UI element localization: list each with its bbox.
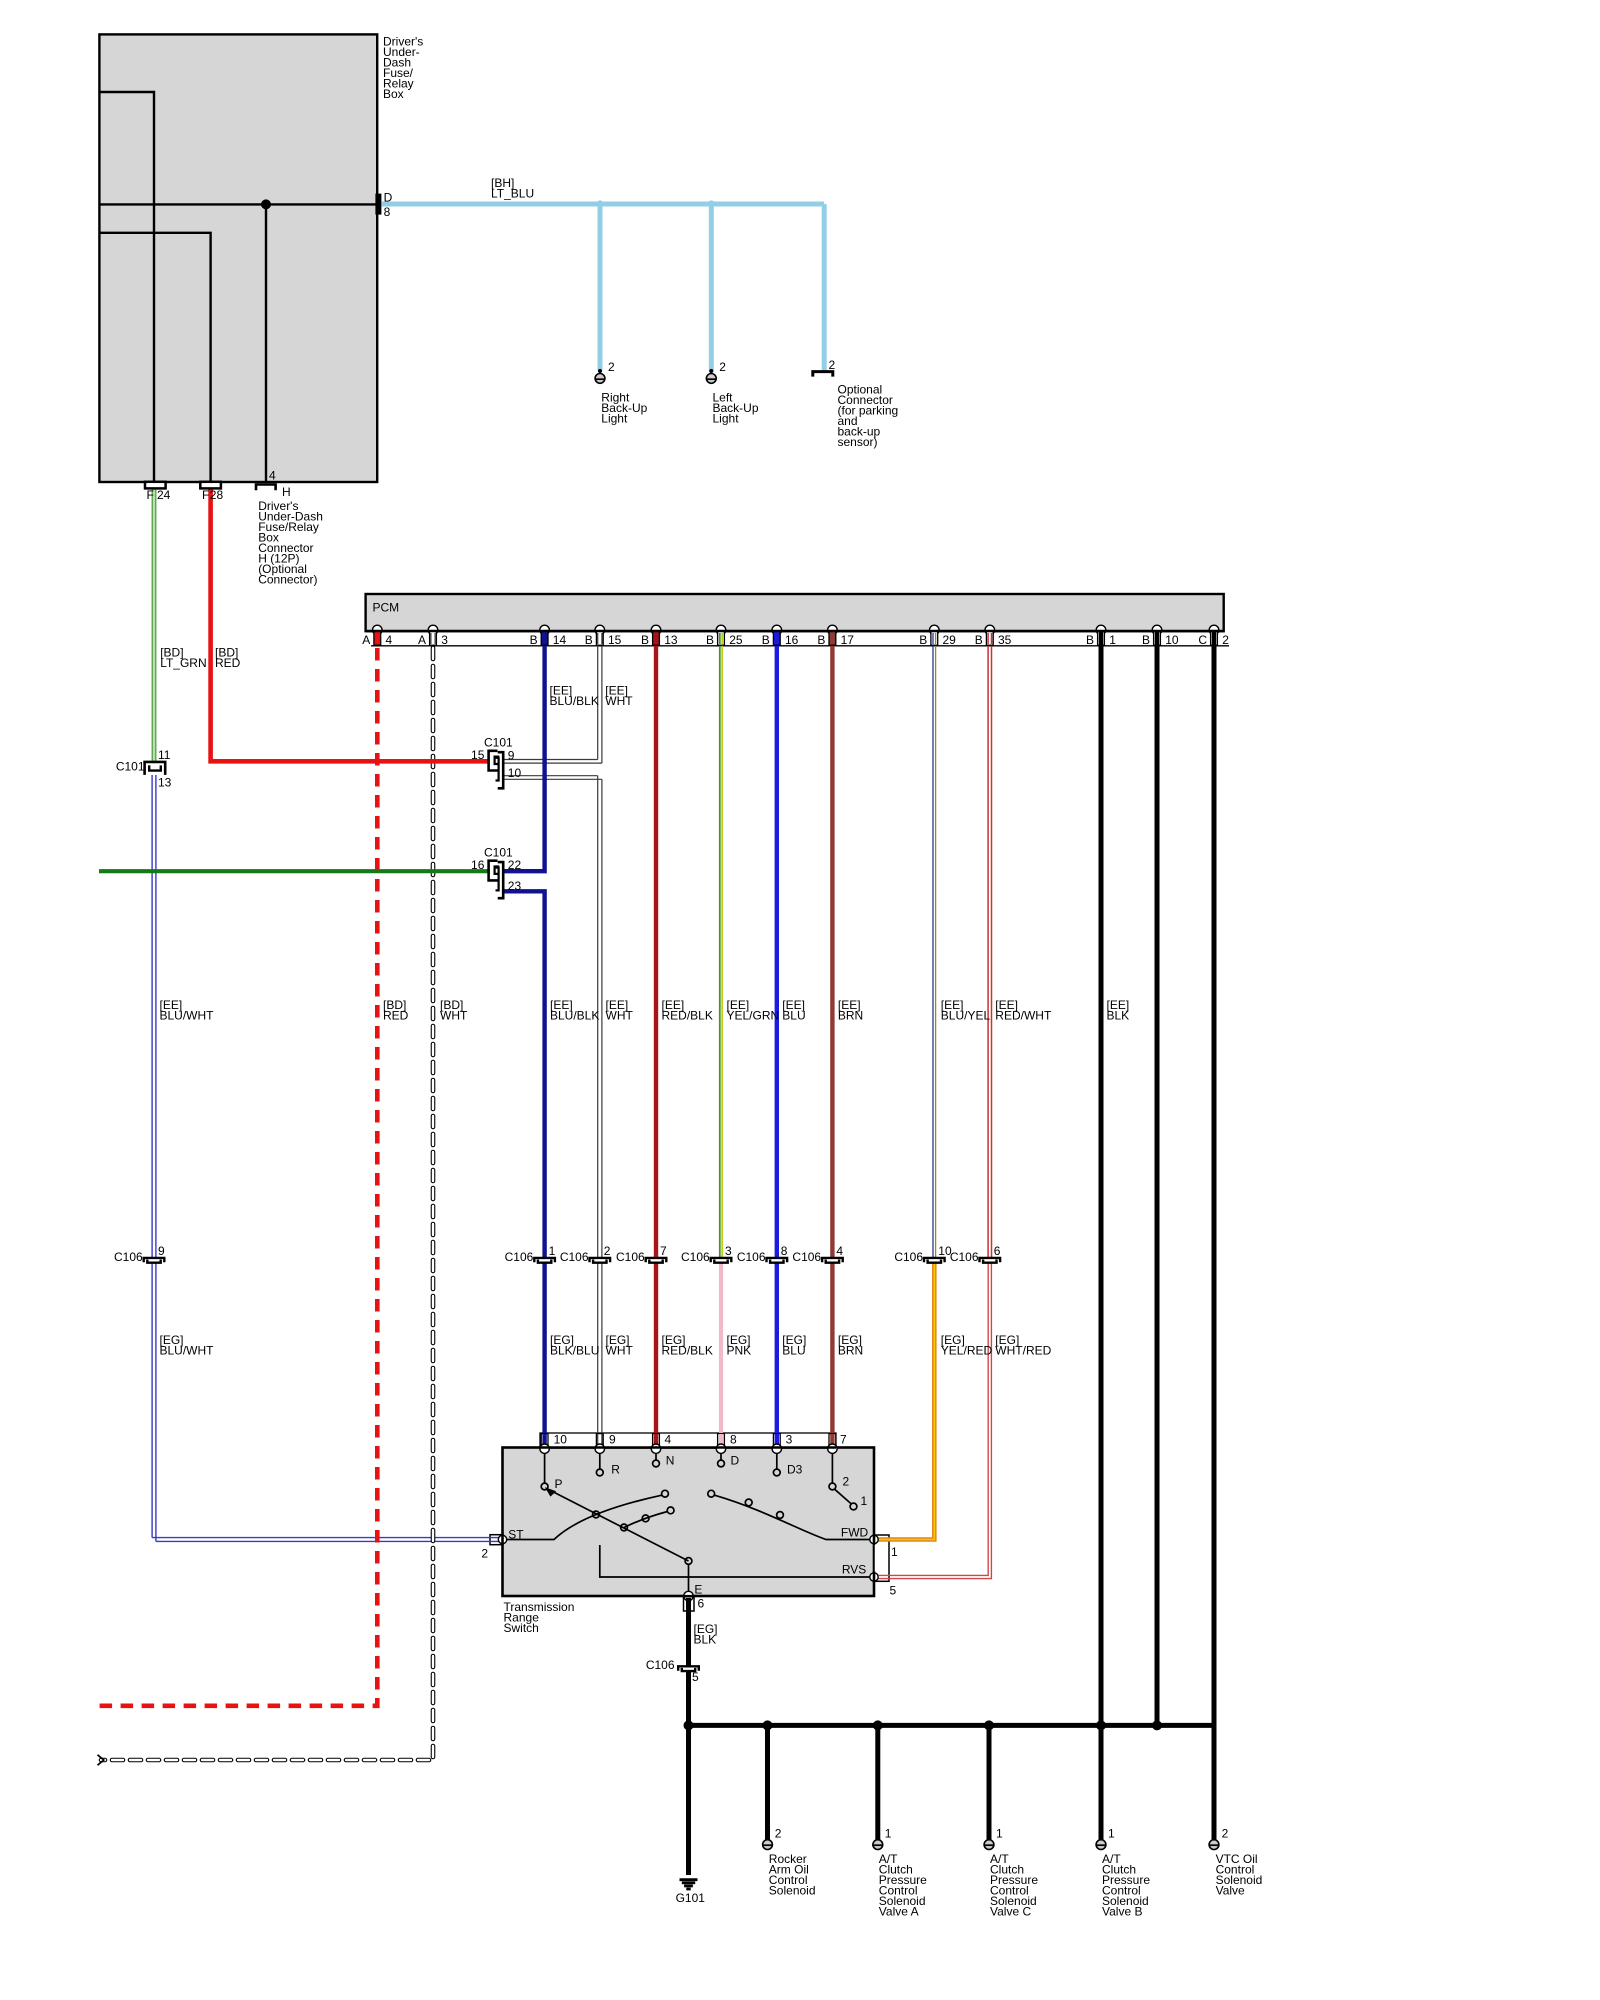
terminal stem R bbox=[599, 1449, 601, 1469]
svg-text:R: R bbox=[611, 1462, 620, 1476]
FWD contact arc bbox=[715, 1495, 875, 1539]
ground symbol G101 bbox=[680, 1880, 698, 1889]
svg-text:5: 5 bbox=[890, 1584, 897, 1598]
connector C106 6 bbox=[980, 1258, 1001, 1263]
svg-text:2: 2 bbox=[1222, 633, 1229, 647]
svg-text:8: 8 bbox=[384, 205, 391, 219]
wire [EG] PNK C106-3 to TRS pin 8 bbox=[719, 1263, 723, 1447]
svg-text:15: 15 bbox=[471, 748, 485, 762]
wire [EE] BLU/YEL PCM B29 to C106-10 bbox=[933, 631, 936, 1258]
solenoid terminal: VTC oil control solenoid valve bbox=[1209, 1840, 1220, 1850]
pin 9 bbox=[596, 1434, 603, 1447]
pin B16 bbox=[773, 632, 780, 646]
svg-text:PCM: PCM bbox=[373, 600, 400, 614]
svg-text:9: 9 bbox=[609, 1432, 616, 1446]
pin B14 bbox=[541, 632, 548, 646]
svg-text:29: 29 bbox=[943, 633, 957, 647]
wire [EE] RED/BLK PCM B13 to C106-7 bbox=[654, 631, 658, 1258]
svg-text:B: B bbox=[762, 633, 770, 647]
svg-text:C106: C106 bbox=[894, 1250, 923, 1264]
wire [EE]/[EG] BLU/WHT from C101-13 to C106-9 to TRS ST (drawn first so dashes cross over) bbox=[152, 775, 500, 1541]
PCM connector label row line bbox=[371, 645, 1229, 647]
pin D8 of fuse box bbox=[375, 194, 381, 215]
svg-text:B: B bbox=[706, 633, 714, 647]
svg-text:1: 1 bbox=[891, 1545, 898, 1559]
svg-text:28: 28 bbox=[210, 488, 224, 502]
svg-text:2: 2 bbox=[1222, 1826, 1229, 1840]
svg-text:25: 25 bbox=[729, 633, 743, 647]
svg-text:13: 13 bbox=[158, 775, 172, 789]
svg-text:6: 6 bbox=[994, 1244, 1001, 1258]
svg-text:14: 14 bbox=[553, 633, 567, 647]
svg-text:24: 24 bbox=[157, 488, 171, 502]
labels: PCM pin letters bbox=[362, 633, 1207, 647]
svg-text:15: 15 bbox=[608, 633, 622, 647]
svg-text:[EE]BLK: [EE]BLK bbox=[1107, 998, 1130, 1023]
svg-text:B: B bbox=[585, 633, 593, 647]
fuse/relay box (Driver's Under-Dash Fuse/Relay Box) bbox=[99, 34, 377, 482]
svg-text:1: 1 bbox=[885, 1826, 892, 1840]
short contact arc bbox=[624, 1512, 668, 1528]
connector C106 7 bbox=[646, 1258, 667, 1263]
svg-text:C106: C106 bbox=[950, 1250, 979, 1264]
PCM pin circles on box edge bbox=[373, 625, 1219, 635]
svg-text:8: 8 bbox=[781, 1244, 788, 1258]
Transmission Range Switch box bbox=[503, 1448, 875, 1597]
wire [BD] RED dashed from PCM A4 bbox=[375, 631, 380, 645]
pin B1 bbox=[1098, 632, 1105, 646]
svg-text:8: 8 bbox=[730, 1432, 737, 1446]
svg-text:C106: C106 bbox=[505, 1250, 534, 1264]
pin B25 bbox=[718, 632, 725, 646]
TRS box edge redraw over circles bbox=[540, 1446, 836, 1449]
wire: internal bus to F28 bbox=[99, 233, 210, 482]
connector C101 15|9,10 bbox=[489, 751, 504, 789]
svg-text:9: 9 bbox=[158, 1244, 165, 1258]
svg-text:E: E bbox=[694, 1583, 702, 1597]
wire [EG] RED/BLK C106-7 to TRS pin 4 bbox=[654, 1263, 658, 1447]
connector C106 10 bbox=[924, 1258, 945, 1263]
wire drop to solenoid valve C bbox=[987, 1725, 992, 1839]
TRS strip pin rects bbox=[541, 1434, 836, 1447]
wire [EE] RED/WHT PCM B35 to C106-6 bbox=[988, 631, 991, 1258]
solenoid terminal: rocker arm oil control solenoid bbox=[762, 1840, 773, 1850]
svg-text:2: 2 bbox=[775, 1826, 782, 1840]
pin B15 bbox=[596, 632, 603, 646]
TRS pin circles bbox=[498, 1444, 878, 1601]
wire end dots at bulbs bbox=[598, 369, 602, 373]
svg-text:11: 11 bbox=[158, 748, 171, 762]
svg-text:3: 3 bbox=[441, 633, 448, 647]
svg-text:1: 1 bbox=[1109, 633, 1116, 647]
svg-text:6: 6 bbox=[698, 1596, 705, 1610]
continuation chevron on [BD] WHT bbox=[98, 1755, 104, 1765]
wire [EG] WHT/RED C106-6 to TRS RVS bbox=[878, 1263, 991, 1579]
node: ground bus junctions bbox=[684, 1720, 694, 1730]
svg-text:N: N bbox=[666, 1453, 675, 1467]
wire [EG] BRN C106-4 to TRS pin 7 bbox=[830, 1263, 834, 1447]
terminal stem P bbox=[544, 1449, 546, 1483]
wire [EE] YEL/GRN PCM B25 to C106-3 bbox=[720, 631, 722, 1258]
svg-text:G101: G101 bbox=[676, 1891, 706, 1905]
svg-text:2: 2 bbox=[843, 1475, 850, 1489]
svg-text:A: A bbox=[362, 633, 370, 647]
pin B13 bbox=[653, 632, 660, 646]
connector H bracket bbox=[256, 485, 276, 491]
wire: internal branch to connector H bbox=[265, 204, 267, 482]
solenoid terminal: A/T clutch pressure control solenoid valve A bbox=[872, 1840, 883, 1850]
svg-text:10: 10 bbox=[1165, 633, 1179, 647]
connector C106 1 bbox=[534, 1258, 555, 1263]
terminal stem D bbox=[720, 1449, 722, 1460]
svg-text:2: 2 bbox=[608, 360, 615, 374]
connector C106 2 bbox=[590, 1258, 611, 1263]
wire [EE] BLK PCM B10 to ground bus bbox=[1155, 631, 1160, 1725]
wire [EE] WHT C101-10 to C106-2 bbox=[504, 776, 602, 1258]
connector C106 5 bbox=[678, 1666, 699, 1671]
terminal stem 2 bbox=[831, 1449, 833, 1483]
wire [BD] LT_GRN from fuse F24 to C101-11 bbox=[152, 488, 157, 761]
svg-text:[BD]RED: [BD]RED bbox=[215, 645, 241, 670]
svg-text:B: B bbox=[641, 633, 649, 647]
svg-text:10: 10 bbox=[508, 766, 522, 780]
pin C2 bbox=[1211, 632, 1218, 646]
svg-text:C106: C106 bbox=[560, 1250, 589, 1264]
node: LT_BLU branch dots bbox=[596, 200, 603, 207]
svg-text:B: B bbox=[975, 633, 983, 647]
svg-text:RVS: RVS bbox=[842, 1562, 866, 1576]
wire [EE] BLU/BLK C101-23 to C106-1 bbox=[504, 891, 545, 1258]
pin B35 bbox=[986, 632, 993, 646]
TRS contact circles bbox=[541, 1460, 857, 1564]
svg-text:D3: D3 bbox=[787, 1462, 803, 1476]
wire [EG] WHT C106-2 to TRS pin 9 bbox=[598, 1263, 602, 1447]
svg-text:[BD]RED: [BD]RED bbox=[383, 998, 409, 1023]
wire [EG] BLK/BLU C106-1 to TRS pin 10 bbox=[542, 1263, 546, 1447]
pin A3 bbox=[430, 632, 437, 646]
svg-text:2: 2 bbox=[604, 1244, 611, 1258]
wire GRN horizontal to C101-16 bbox=[99, 869, 488, 873]
svg-text:4: 4 bbox=[836, 1244, 843, 1258]
wire [EE] BRN PCM B17 to C106-4 bbox=[830, 631, 834, 1258]
pin 10 bbox=[541, 1434, 548, 1447]
svg-text:1: 1 bbox=[549, 1244, 556, 1258]
wiper arm ST arc to contact bbox=[503, 1495, 662, 1539]
svg-text:1: 1 bbox=[861, 1494, 868, 1508]
svg-text:1: 1 bbox=[996, 1826, 1003, 1840]
terminal stem N bbox=[655, 1449, 657, 1460]
svg-text:[EG]BRN: [EG]BRN bbox=[838, 1333, 863, 1358]
fuse F24 bbox=[145, 482, 166, 489]
svg-text:FWD: FWD bbox=[841, 1525, 869, 1539]
svg-text:H: H bbox=[282, 485, 291, 499]
svg-text:4: 4 bbox=[665, 1432, 672, 1446]
svg-text:Driver'sUnder-DashFuse/RelayBo: Driver'sUnder-DashFuse/RelayBoxConnector… bbox=[258, 499, 323, 587]
wire [EE] BLU/BLK PCM B14 to C101-22 bbox=[504, 631, 545, 871]
svg-text:17: 17 bbox=[841, 633, 855, 647]
bulb terminal: left back-up light bbox=[706, 374, 717, 384]
svg-text:[EG]BLU: [EG]BLU bbox=[782, 1333, 806, 1358]
wire [BD] RED from fuse F28 to C101-15 bbox=[211, 488, 489, 761]
svg-text:7: 7 bbox=[660, 1244, 667, 1258]
svg-text:C106: C106 bbox=[792, 1250, 821, 1264]
svg-text:ST: ST bbox=[508, 1528, 524, 1542]
optional connector bracket bbox=[813, 372, 833, 377]
E wiper stem bbox=[688, 1564, 690, 1596]
contact 2-1 tick bbox=[835, 1489, 852, 1504]
svg-text:B: B bbox=[1086, 633, 1094, 647]
svg-text:A: A bbox=[418, 633, 426, 647]
svg-text:16: 16 bbox=[471, 858, 485, 872]
TRS internal contacts bbox=[503, 1449, 875, 1596]
svg-text:5: 5 bbox=[692, 1670, 699, 1684]
svg-text:C106: C106 bbox=[681, 1250, 710, 1264]
wire [EE] WHT C101-9 to PCM B15 bbox=[504, 631, 602, 763]
labels: C106 row bbox=[114, 1250, 979, 1264]
pin B10 bbox=[1154, 632, 1161, 646]
fuse F28 bbox=[200, 482, 221, 489]
connector C106 9 bbox=[144, 1258, 165, 1263]
pin 7 bbox=[829, 1434, 836, 1447]
pin B17 bbox=[829, 632, 836, 646]
ground bus bbox=[689, 1723, 1215, 1728]
solenoid terminal: A/T clutch pressure control solenoid valve B bbox=[1096, 1840, 1107, 1850]
svg-text:D: D bbox=[731, 1453, 740, 1467]
RVS contact line bbox=[600, 1545, 874, 1577]
wire [EG] BLK TRS E to C106-5 and ground bbox=[686, 1611, 691, 1666]
wire drop to solenoid valve A bbox=[875, 1725, 880, 1839]
pin 4 bbox=[653, 1434, 660, 1447]
svg-text:[EG]BLK: [EG]BLK bbox=[694, 1622, 718, 1647]
pin B29 bbox=[931, 632, 938, 646]
svg-text:1: 1 bbox=[1108, 1826, 1115, 1840]
wire [EG] BLU C106-8 to TRS pin 3 bbox=[775, 1263, 779, 1447]
svg-text:F: F bbox=[202, 488, 209, 502]
wire [BD] WHT dashed from PCM A3 bbox=[101, 631, 435, 1760]
svg-text:4: 4 bbox=[386, 633, 393, 647]
TRS E pin rect bbox=[684, 1597, 695, 1612]
connector C106 8 bbox=[767, 1258, 788, 1263]
svg-text:B: B bbox=[817, 633, 825, 647]
svg-text:B: B bbox=[919, 633, 927, 647]
bulb terminal: right back-up light bbox=[595, 374, 606, 384]
TRS FWD/RVS pin bracket bbox=[874, 1535, 889, 1581]
svg-text:7: 7 bbox=[840, 1432, 847, 1446]
wire: internal bus to D8 bbox=[99, 203, 377, 205]
svg-text:[EE]BRN: [EE]BRN bbox=[838, 998, 863, 1023]
svg-text:23: 23 bbox=[508, 879, 522, 893]
svg-text:4: 4 bbox=[269, 469, 276, 483]
wire [EE] BLK PCM C2 to VTC solenoid bbox=[1212, 631, 1217, 1840]
svg-text:10: 10 bbox=[554, 1432, 568, 1446]
svg-text:B: B bbox=[530, 633, 538, 647]
svg-text:2: 2 bbox=[719, 360, 726, 374]
svg-text:F: F bbox=[147, 488, 154, 502]
connector C106 3 bbox=[711, 1258, 732, 1263]
svg-text:P: P bbox=[555, 1477, 563, 1491]
svg-text:16: 16 bbox=[785, 633, 799, 647]
svg-text:[EG]WHT: [EG]WHT bbox=[606, 1333, 634, 1358]
svg-text:35: 35 bbox=[998, 633, 1012, 647]
svg-text:13: 13 bbox=[664, 633, 678, 647]
pin 8 bbox=[718, 1434, 725, 1447]
svg-text:C106: C106 bbox=[114, 1250, 143, 1264]
svg-text:C101: C101 bbox=[116, 759, 145, 773]
TRS connector strip bbox=[540, 1433, 836, 1448]
connector C101 16|22,23 bbox=[489, 861, 504, 899]
wire drop to rocker arm solenoid bbox=[765, 1725, 770, 1839]
svg-text:22: 22 bbox=[508, 858, 522, 872]
svg-text:[EG]PNK: [EG]PNK bbox=[727, 1333, 752, 1358]
svg-text:2: 2 bbox=[829, 358, 836, 372]
svg-text:2: 2 bbox=[481, 1547, 488, 1561]
terminal stem D3 bbox=[776, 1449, 778, 1469]
wiper arm P to E diagonal bbox=[550, 1490, 689, 1561]
wire [EE] BLK PCM B1 to solenoid valve B bbox=[1099, 631, 1104, 1840]
connector C106 4 bbox=[822, 1258, 843, 1263]
wiper arrowhead at P bbox=[545, 1487, 556, 1497]
pin 3 bbox=[773, 1434, 780, 1447]
wire [BH] LT_BLU from D8 to back-up lights bbox=[381, 202, 824, 207]
svg-text:[EE]BLU: [EE]BLU bbox=[782, 998, 805, 1023]
wire: internal bus to F24 bbox=[99, 92, 154, 482]
pin A4 bbox=[374, 632, 381, 646]
solenoid terminal: A/T clutch pressure control solenoid valve C bbox=[984, 1840, 995, 1850]
wire [EE] BLU PCM B16 to C106-8 bbox=[775, 631, 779, 1258]
svg-text:B: B bbox=[1142, 633, 1150, 647]
svg-text:9: 9 bbox=[508, 748, 515, 762]
node: junction in fuse box bbox=[261, 199, 271, 209]
connector C101 11/13 (left, in-line vertical) bbox=[145, 762, 166, 775]
svg-text:3: 3 bbox=[786, 1432, 793, 1446]
svg-text:C106: C106 bbox=[616, 1250, 645, 1264]
svg-text:C106: C106 bbox=[737, 1250, 766, 1264]
PCM box bbox=[366, 594, 1224, 631]
wire [EG] YEL/RED C106-10 to TRS FWD bbox=[878, 1263, 934, 1540]
PCM bottom edge redraw over circles bbox=[366, 630, 1224, 632]
svg-text:C106: C106 bbox=[646, 1658, 675, 1672]
svg-text:10: 10 bbox=[938, 1244, 952, 1258]
TRS ST pin rect bbox=[490, 1535, 503, 1545]
svg-text:D: D bbox=[384, 191, 393, 205]
svg-text:C: C bbox=[1198, 633, 1207, 647]
svg-text:3: 3 bbox=[725, 1244, 732, 1258]
